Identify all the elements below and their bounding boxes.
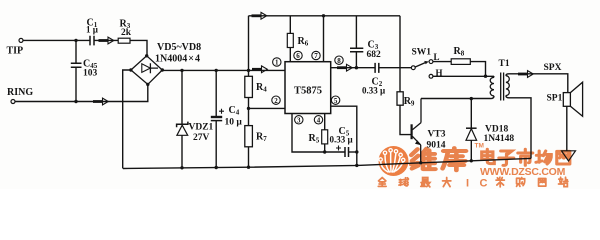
svg-text:TM: TM xyxy=(475,143,484,150)
capacitor C4 column xyxy=(215,70,217,167)
wire pin2 from R4/R7 junction xyxy=(249,107,286,109)
switch SW1 xyxy=(411,60,433,79)
svg-text:R8: R8 xyxy=(454,46,465,58)
pin 2 xyxy=(272,96,280,105)
svg-text:1N4004×4: 1N4004×4 xyxy=(155,54,200,65)
svg-text:3: 3 xyxy=(297,116,301,124)
pin 7 xyxy=(312,51,320,60)
svg-text:WWW.DZSC.COM: WWW.DZSC.COM xyxy=(480,166,566,178)
svg-text:1 µ: 1 µ xyxy=(86,25,99,35)
svg-text:5: 5 xyxy=(334,97,338,105)
svg-text:103: 103 xyxy=(83,69,98,79)
wire R3 to bridge top xyxy=(130,40,147,55)
svg-text:RING: RING xyxy=(7,87,33,98)
capacitor C5 xyxy=(345,147,349,157)
wire R9 column from rail corner xyxy=(399,16,401,92)
arrow on TIP wire xyxy=(99,37,114,44)
transistor VT3 xyxy=(412,99,421,163)
node R4/R7 pin2 xyxy=(247,107,250,110)
transformer T1 core xyxy=(501,73,504,101)
wire R9 to VT3 base xyxy=(400,105,411,134)
wire bridge left vertex to ground rail xyxy=(123,70,131,169)
wire R8 to node X xyxy=(470,62,485,77)
svg-text:SP1: SP1 xyxy=(547,94,563,104)
svg-text:2: 2 xyxy=(274,97,278,105)
svg-text:T1: T1 xyxy=(499,59,510,69)
capacitor C45 xyxy=(71,63,82,67)
wire column x249 top rail down to bottom rail xyxy=(248,16,250,167)
node TIP/C45 xyxy=(74,39,77,42)
svg-text:27V: 27V xyxy=(193,133,210,143)
wire pin3 down and across xyxy=(292,114,345,153)
svg-text:0.33 µ: 0.33 µ xyxy=(362,86,386,96)
watermark logo circle xyxy=(379,146,409,176)
capacitor C2 xyxy=(375,63,379,73)
wire RING to bridge bottom xyxy=(15,84,148,101)
pin 4 xyxy=(314,116,322,125)
arrow on top rail xyxy=(252,12,267,19)
svg-text:L: L xyxy=(434,52,440,62)
circled pin numbers xyxy=(272,51,343,124)
wire bottom rail xyxy=(123,158,531,168)
wire pin7 column xyxy=(323,16,325,62)
resistor R3 xyxy=(118,38,130,43)
node X T1 top xyxy=(484,75,487,78)
resistor R6 xyxy=(287,33,293,47)
node +V at VDZ1 xyxy=(180,69,183,72)
zener VDZ1 symbol xyxy=(177,122,188,136)
watermark text 电子市场网 xyxy=(482,149,570,165)
diode VD18 xyxy=(466,128,477,140)
wire pin5 across and down xyxy=(331,106,357,165)
svg-text:R5: R5 xyxy=(309,133,320,145)
wire L contact through R8 xyxy=(433,61,451,63)
diode VD18 column xyxy=(470,99,472,161)
arrow on pin1 wire xyxy=(252,66,267,73)
svg-text:I: I xyxy=(466,178,469,190)
svg-text:8: 8 xyxy=(337,57,341,65)
svg-text:1N4148: 1N4148 xyxy=(484,134,515,144)
wire TIP to C1 xyxy=(23,39,90,41)
capacitor C3 column xyxy=(355,16,357,68)
IC U1 T5875 box xyxy=(285,62,331,114)
svg-text:682: 682 xyxy=(367,50,382,60)
wire VT3 collector to T1 xyxy=(421,98,491,100)
node rail VT3 emitter xyxy=(419,161,422,164)
resistor R4 xyxy=(245,76,253,97)
diode bridge VD5-VD8 xyxy=(129,54,164,86)
svg-text:0.33 µ: 0.33 µ xyxy=(330,135,354,145)
svg-text:VT3: VT3 xyxy=(428,130,446,140)
svg-text:VDZ1: VDZ1 xyxy=(189,123,214,133)
svg-text:SPX: SPX xyxy=(544,63,562,73)
node rail R7 xyxy=(247,166,250,169)
svg-text:6: 6 xyxy=(296,52,300,60)
signal arrows xyxy=(93,12,533,105)
wire pin4 column xyxy=(324,114,326,153)
arrow on SPX wire xyxy=(518,71,533,78)
ground triangle under SP1 xyxy=(562,151,576,161)
node pin8/C3 xyxy=(355,66,358,69)
svg-text:R9: R9 xyxy=(404,96,415,108)
terminal TIP xyxy=(19,38,23,42)
svg-text:TIP: TIP xyxy=(7,46,24,57)
svg-text:R4: R4 xyxy=(256,82,267,94)
resistor R9 xyxy=(397,92,403,105)
transformer T1 secondary xyxy=(506,74,568,159)
svg-text:VD5~VD8: VD5~VD8 xyxy=(157,42,201,53)
watermark bottom row 全球最大IC采购网站 xyxy=(378,177,568,189)
pin 1 xyxy=(273,58,281,67)
node rail pin5 xyxy=(355,164,358,167)
resistor R5 xyxy=(322,130,328,144)
pin 6 xyxy=(294,51,302,60)
wire C45 column xyxy=(75,40,77,101)
svg-text:9014: 9014 xyxy=(427,140,446,150)
terminal RING xyxy=(11,100,15,104)
node +V at C4 xyxy=(215,69,218,72)
transformer T1 primary xyxy=(490,76,494,98)
wire +V from bridge to IC pin1 xyxy=(162,69,285,71)
wire C1 to R3 xyxy=(94,39,118,41)
capacitor C4 xyxy=(211,117,222,121)
zener VDZ1 column xyxy=(181,70,183,167)
arrow on RING wire xyxy=(93,98,108,105)
arrow on pin8 wire xyxy=(337,64,352,71)
svg-text:4: 4 xyxy=(317,116,321,124)
svg-text:T5875: T5875 xyxy=(294,86,322,97)
node rail VDZ1 xyxy=(180,166,183,169)
schematic main group xyxy=(11,16,583,169)
resistor R8 xyxy=(451,59,470,65)
capacitor C1 xyxy=(90,36,94,46)
wire H contact to node X xyxy=(433,75,494,77)
svg-text:10 µ: 10 µ xyxy=(225,118,243,128)
node rail C4 xyxy=(215,166,218,169)
pin 3 xyxy=(295,116,303,125)
node rail VD18 xyxy=(470,159,473,162)
node +V at x249 xyxy=(247,69,250,72)
node top rail pin7 xyxy=(322,14,325,17)
svg-text:1: 1 xyxy=(275,59,279,67)
node R5/C5 xyxy=(323,150,326,153)
svg-text:VD18: VD18 xyxy=(485,125,508,135)
svg-text:R7: R7 xyxy=(256,132,267,144)
watermark big text 维库 xyxy=(411,143,484,171)
svg-text:R6: R6 xyxy=(298,36,309,48)
svg-text:SW1: SW1 xyxy=(412,48,432,58)
node RING/C45 xyxy=(74,100,77,103)
capacitor C3 xyxy=(350,48,363,51)
wire top rail xyxy=(249,15,401,17)
node C5/pin5 column xyxy=(355,150,358,153)
wire C5 to pin5 column xyxy=(349,151,357,153)
svg-text:7: 7 xyxy=(314,52,318,60)
pin 5 xyxy=(331,96,339,105)
resistor R7 xyxy=(245,126,253,147)
node VD18 tap xyxy=(470,97,473,100)
svg-text:H: H xyxy=(436,68,443,78)
speaker SP1 xyxy=(563,82,582,151)
svg-text:C4: C4 xyxy=(229,105,240,117)
svg-text:C: C xyxy=(480,178,488,190)
wire R6 column xyxy=(289,16,291,62)
svg-text:2k: 2k xyxy=(121,28,132,38)
pin 8 xyxy=(335,56,343,65)
plus sign C4 xyxy=(219,109,224,114)
plus sign C5 xyxy=(336,146,341,151)
wire pin8 xyxy=(331,67,412,69)
component text labels xyxy=(7,18,563,151)
